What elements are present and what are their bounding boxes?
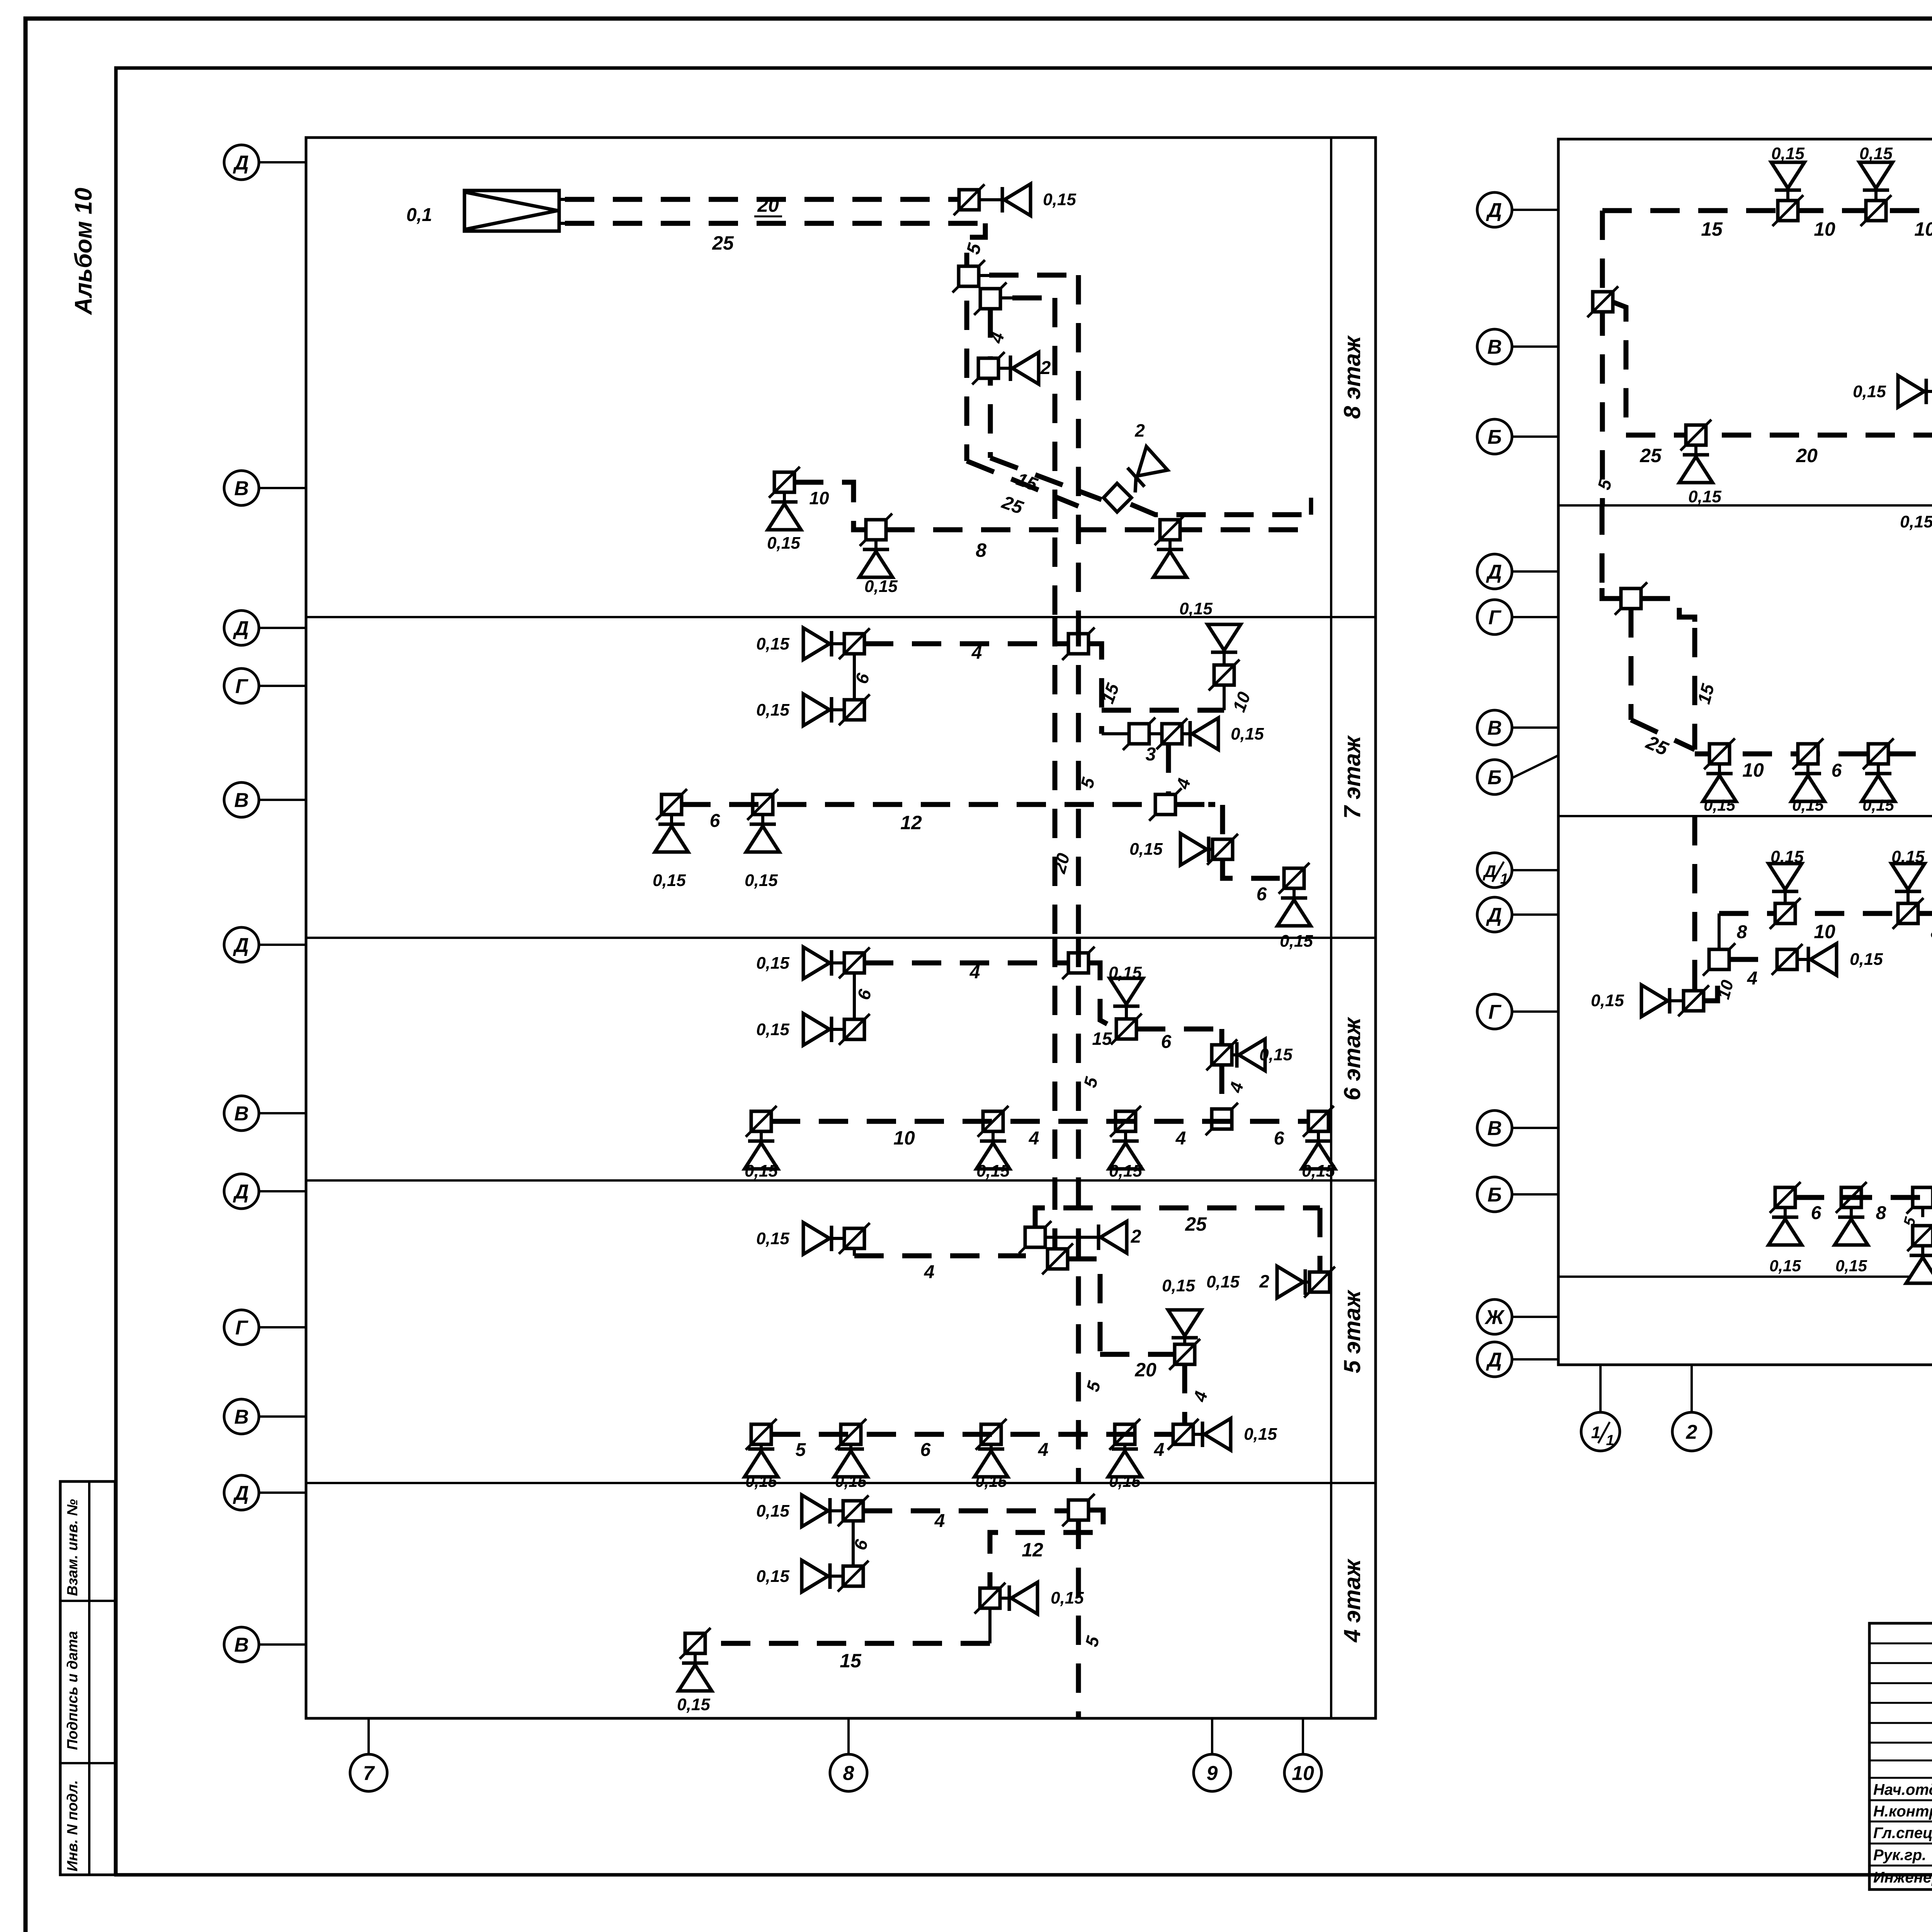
svg-text:20: 20 bbox=[1796, 445, 1818, 466]
svg-text:0,15: 0,15 bbox=[1043, 190, 1076, 209]
svg-text:7 этаж: 7 этаж bbox=[1339, 735, 1365, 819]
svg-text:25: 25 bbox=[712, 232, 734, 254]
svg-text:Рук.гр.: Рук.гр. bbox=[1873, 1847, 1926, 1864]
svg-text:15: 15 bbox=[1092, 1029, 1112, 1049]
svg-text:В: В bbox=[234, 1406, 249, 1429]
svg-text:0,15: 0,15 bbox=[1835, 1257, 1867, 1275]
svg-text:5: 5 bbox=[796, 1440, 806, 1460]
svg-text:10: 10 bbox=[1814, 218, 1835, 240]
svg-text:8: 8 bbox=[1931, 922, 1932, 942]
svg-text:0,15: 0,15 bbox=[1900, 512, 1932, 531]
svg-text:0,15: 0,15 bbox=[1769, 1257, 1801, 1275]
svg-text:8 этаж: 8 этаж bbox=[1339, 335, 1365, 419]
svg-text:Д: Д bbox=[1486, 904, 1502, 927]
svg-text:2: 2 bbox=[1259, 1271, 1269, 1291]
svg-text:2: 2 bbox=[1131, 1226, 1141, 1247]
svg-text:0,15: 0,15 bbox=[756, 1229, 789, 1248]
svg-text:0,15: 0,15 bbox=[1688, 487, 1721, 506]
svg-text:Д: Д bbox=[1486, 1349, 1502, 1371]
svg-text:15: 15 bbox=[1701, 218, 1723, 240]
svg-text:0,15: 0,15 bbox=[767, 534, 800, 553]
svg-text:4: 4 bbox=[1747, 968, 1758, 989]
svg-text:1: 1 bbox=[1606, 1432, 1614, 1449]
svg-text:0,15: 0,15 bbox=[1704, 796, 1735, 814]
svg-text:Н.контр.: Н.контр. bbox=[1873, 1803, 1932, 1820]
svg-text:0,15: 0,15 bbox=[756, 634, 789, 653]
svg-text:0,15: 0,15 bbox=[756, 701, 789, 719]
svg-text:6: 6 bbox=[920, 1440, 931, 1460]
svg-text:В: В bbox=[234, 478, 249, 500]
svg-text:15: 15 bbox=[840, 1650, 862, 1672]
svg-text:0,15: 0,15 bbox=[756, 1567, 789, 1586]
svg-text:8: 8 bbox=[976, 539, 986, 561]
svg-text:В: В bbox=[234, 1103, 249, 1125]
svg-text:10: 10 bbox=[1292, 1762, 1314, 1785]
svg-text:6: 6 bbox=[710, 811, 720, 831]
svg-text:2: 2 bbox=[1686, 1421, 1697, 1444]
svg-text:Д: Д bbox=[233, 152, 249, 174]
svg-text:0,1: 0,1 bbox=[406, 205, 432, 225]
svg-text:0,15: 0,15 bbox=[756, 1020, 789, 1039]
svg-text:0,15: 0,15 bbox=[1179, 599, 1213, 618]
svg-text:0,15: 0,15 bbox=[1109, 1162, 1142, 1180]
svg-text:5 этаж: 5 этаж bbox=[1339, 1289, 1365, 1373]
svg-text:8: 8 bbox=[843, 1762, 854, 1785]
svg-text:4: 4 bbox=[924, 1262, 935, 1282]
svg-text:8: 8 bbox=[1737, 922, 1747, 942]
svg-text:0,15: 0,15 bbox=[745, 1162, 778, 1180]
svg-text:0,15: 0,15 bbox=[835, 1472, 867, 1490]
svg-text:0,15: 0,15 bbox=[756, 954, 789, 973]
svg-text:0,15: 0,15 bbox=[1862, 796, 1894, 814]
svg-text:Ж: Ж bbox=[1484, 1306, 1505, 1329]
svg-text:25: 25 bbox=[1185, 1213, 1207, 1235]
svg-text:Альбом 10: Альбом 10 bbox=[70, 188, 97, 315]
svg-text:4: 4 bbox=[934, 1511, 945, 1531]
svg-text:3: 3 bbox=[1146, 744, 1156, 765]
svg-text:0,15: 0,15 bbox=[1162, 1276, 1195, 1295]
svg-text:10: 10 bbox=[893, 1127, 915, 1149]
svg-text:6: 6 bbox=[1811, 1203, 1821, 1223]
svg-text:0,15: 0,15 bbox=[745, 1472, 777, 1490]
svg-text:20: 20 bbox=[1134, 1359, 1156, 1381]
svg-text:2: 2 bbox=[1040, 358, 1051, 378]
svg-text:6: 6 bbox=[1257, 884, 1267, 905]
svg-text:Б: Б bbox=[1488, 1184, 1502, 1206]
svg-text:0,15: 0,15 bbox=[677, 1695, 710, 1714]
svg-text:10: 10 bbox=[809, 488, 829, 508]
svg-text:4: 4 bbox=[1038, 1440, 1049, 1460]
svg-text:12: 12 bbox=[900, 812, 922, 833]
svg-text:8: 8 bbox=[1876, 1203, 1886, 1223]
svg-text:12: 12 bbox=[1022, 1539, 1043, 1561]
svg-text:10: 10 bbox=[1814, 921, 1835, 942]
svg-text:Б: Б bbox=[1488, 426, 1502, 449]
svg-text:Гл.спец.: Гл.спец. bbox=[1873, 1825, 1932, 1842]
svg-text:0,15: 0,15 bbox=[864, 577, 898, 596]
svg-text:0,15: 0,15 bbox=[1244, 1425, 1277, 1444]
svg-text:4: 4 bbox=[1029, 1128, 1039, 1149]
svg-text:25: 25 bbox=[1639, 445, 1662, 466]
svg-text:0,15: 0,15 bbox=[1109, 1472, 1141, 1490]
svg-text:Д: Д bbox=[233, 934, 249, 957]
svg-text:1: 1 bbox=[1591, 1423, 1600, 1442]
svg-text:Подпись и дата: Подпись и дата bbox=[65, 1631, 81, 1750]
svg-text:Инв. N подл.: Инв. N подл. bbox=[65, 1780, 81, 1871]
svg-text:20: 20 bbox=[757, 194, 779, 216]
svg-text:10: 10 bbox=[1742, 759, 1764, 781]
svg-text:0,15: 0,15 bbox=[1771, 144, 1804, 163]
svg-text:0,15: 0,15 bbox=[1206, 1272, 1240, 1291]
svg-text:4: 4 bbox=[971, 643, 982, 663]
svg-text:0,15: 0,15 bbox=[1850, 950, 1883, 969]
svg-text:0,15: 0,15 bbox=[1591, 991, 1624, 1010]
svg-text:0,15: 0,15 bbox=[1051, 1588, 1084, 1607]
svg-text:4: 4 bbox=[1154, 1440, 1165, 1460]
svg-text:0,15: 0,15 bbox=[1109, 963, 1142, 982]
svg-text:0,15: 0,15 bbox=[1129, 840, 1163, 859]
svg-text:Г: Г bbox=[235, 1317, 248, 1339]
svg-text:0,15: 0,15 bbox=[1891, 847, 1925, 866]
svg-text:Г: Г bbox=[1488, 607, 1502, 629]
svg-text:10: 10 bbox=[1914, 218, 1932, 240]
svg-text:4 этаж: 4 этаж bbox=[1339, 1558, 1365, 1643]
svg-text:4: 4 bbox=[969, 962, 980, 983]
svg-text:Инженер: Инженер bbox=[1873, 1869, 1932, 1886]
svg-text:0,15: 0,15 bbox=[1792, 796, 1824, 814]
svg-text:В: В bbox=[1487, 717, 1502, 740]
svg-text:1: 1 bbox=[1500, 871, 1508, 887]
svg-text:Г: Г bbox=[235, 675, 248, 698]
svg-text:6: 6 bbox=[1832, 760, 1842, 781]
svg-text:9: 9 bbox=[1207, 1762, 1218, 1785]
svg-text:Нач.отд.: Нач.отд. bbox=[1873, 1781, 1932, 1798]
svg-text:0,15: 0,15 bbox=[976, 1162, 1010, 1180]
svg-text:0,15: 0,15 bbox=[1302, 1162, 1335, 1180]
svg-text:В: В bbox=[234, 1634, 249, 1656]
svg-text:6: 6 bbox=[1161, 1032, 1172, 1052]
svg-text:0,15: 0,15 bbox=[1770, 847, 1804, 866]
svg-text:0,15: 0,15 bbox=[1231, 724, 1264, 743]
svg-text:0,15: 0,15 bbox=[1259, 1045, 1293, 1064]
svg-text:0,15: 0,15 bbox=[1280, 932, 1313, 951]
svg-text:4: 4 bbox=[1175, 1128, 1186, 1149]
svg-text:Б: Б bbox=[1488, 767, 1502, 789]
svg-text:2: 2 bbox=[1134, 420, 1145, 440]
svg-text:0,15: 0,15 bbox=[1853, 382, 1886, 401]
svg-text:0,15: 0,15 bbox=[975, 1472, 1007, 1490]
svg-text:0,15: 0,15 bbox=[756, 1502, 789, 1520]
svg-text:Д: Д bbox=[233, 1482, 249, 1505]
svg-text:Д: Д bbox=[233, 1181, 249, 1203]
svg-text:Д: Д bbox=[1486, 561, 1502, 583]
svg-text:6: 6 bbox=[1274, 1128, 1284, 1149]
svg-text:Взам. инв. №: Взам. инв. № bbox=[65, 1499, 81, 1596]
svg-text:0,15: 0,15 bbox=[1859, 144, 1893, 163]
svg-text:0,15: 0,15 bbox=[653, 871, 686, 890]
svg-text:Г: Г bbox=[1488, 1001, 1502, 1024]
svg-text:6 этаж: 6 этаж bbox=[1339, 1017, 1365, 1100]
svg-text:Д: Д bbox=[233, 617, 249, 640]
svg-text:В: В bbox=[234, 789, 249, 812]
svg-text:Д: Д bbox=[1486, 199, 1502, 222]
svg-text:7: 7 bbox=[363, 1762, 375, 1785]
svg-text:В: В bbox=[1487, 336, 1502, 359]
svg-text:В: В bbox=[1487, 1117, 1502, 1140]
svg-text:0,15: 0,15 bbox=[745, 871, 778, 890]
